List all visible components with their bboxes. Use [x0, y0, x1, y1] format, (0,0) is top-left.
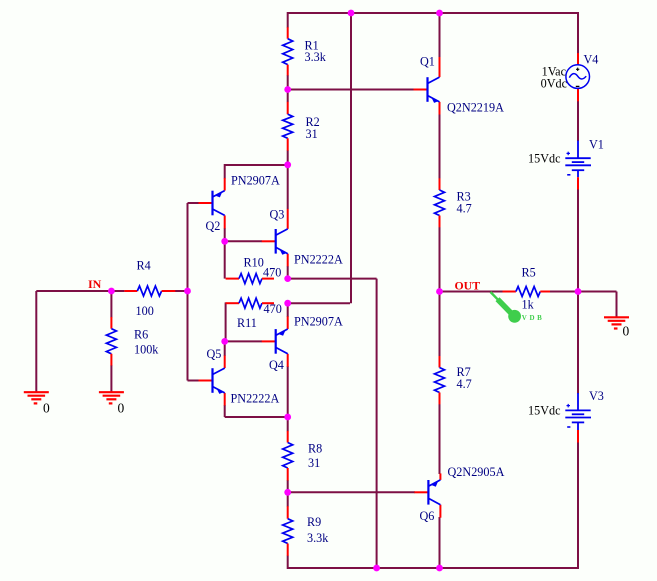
svg-text:15Vdc: 15Vdc [528, 152, 561, 166]
wire Q1 emitter to R3 [439, 114, 441, 179]
wire Q5 collector up to node [224, 341, 226, 356]
wire R9 bottom to bottom rail [287, 556, 289, 570]
transistor Q5 PN2222A [199, 380, 213, 382]
DC source V3 15Vdc [577, 393, 579, 410]
svg-text:100k: 100k [134, 343, 159, 357]
svg-text:R10: R10 [244, 256, 264, 270]
AC source V4 [577, 53, 579, 65]
resistor R5 [503, 291, 516, 293]
svg-text:R9: R9 [307, 515, 321, 529]
svg-text:31: 31 [308, 456, 320, 470]
wire ground stub right [578, 291, 617, 293]
svg-text:V1: V1 [589, 138, 604, 152]
probe marker VDB [491, 292, 500, 301]
wire R3 to OUT node [439, 227, 441, 292]
svg-text:15Vdc: 15Vdc [528, 404, 561, 418]
transistor Q3 PN2222A [262, 240, 276, 242]
transistor Q1 Q2N2219A [414, 89, 428, 91]
wire Q6 collector to bottom rail [439, 517, 441, 568]
wire R4 to input splitter column [175, 290, 188, 292]
svg-text:3.3k: 3.3k [307, 531, 329, 545]
transistor Q4 PN2907A [262, 340, 276, 342]
wire R1 top connection [287, 12, 289, 28]
svg-text:Q2N2219A: Q2N2219A [447, 101, 504, 115]
svg-text:V4: V4 [584, 53, 599, 67]
wire mid junction to V3 [577, 292, 579, 394]
wire right source column V4 to V1 [577, 12, 579, 54]
svg-text:100: 100 [136, 304, 154, 318]
svg-text:470: 470 [263, 266, 281, 280]
transistor Q6 Q2N2905A [414, 491, 428, 493]
wire bias drop from top rail to R11 node [350, 12, 352, 303]
wire node to Q1 base [288, 89, 414, 91]
svg-text:Q2: Q2 [206, 219, 221, 233]
svg-text:4.7: 4.7 [457, 377, 472, 391]
wire Q4 emitter up to R11 node [287, 303, 289, 317]
wire input node to left ground [36, 290, 111, 292]
svg-text:PN2907A: PN2907A [231, 174, 280, 188]
resistor R2 [287, 102, 289, 114]
svg-text:3.3k: 3.3k [305, 50, 327, 64]
resistor R6 [110, 317, 112, 329]
svg-text:4.7: 4.7 [457, 202, 472, 216]
wire V1 to mid junction [577, 189, 579, 292]
svg-text:Q2N2905A: Q2N2905A [448, 465, 505, 479]
wire Q2 emitter node horizontal [225, 164, 289, 166]
wire R2 bottom to Q2 emitter node [287, 150, 289, 165]
resistor R7 [439, 356, 441, 368]
wire R6 bottom to ground [110, 365, 112, 392]
svg-text:Q6: Q6 [420, 509, 435, 523]
wire R1 to R2 node and Q1 base feed [287, 75, 289, 102]
svg-text:0: 0 [623, 324, 630, 339]
svg-text:470: 470 [264, 302, 282, 316]
wire Q4 collector down to R8 node [287, 366, 289, 417]
wire to Q2 base [188, 202, 200, 204]
wire R8 bottom to R9 node [287, 480, 289, 507]
wire Q3 base node down to R10 [224, 241, 226, 278]
resistor R4 [112, 290, 124, 292]
svg-text:IN: IN [88, 277, 102, 291]
resistor R8 [287, 431, 289, 443]
transistor Q2 PN2907A [199, 202, 213, 204]
svg-text:VDB: VDB [522, 314, 545, 322]
wire R7 to Q6 emitter [439, 404, 441, 474]
ground left 0 [24, 391, 49, 393]
resistor R9 [287, 506, 289, 519]
ground right 0 [604, 316, 629, 318]
wire column x377 down to bottom rail [376, 279, 378, 568]
svg-text:R4: R4 [137, 259, 151, 273]
svg-text:R5: R5 [522, 266, 536, 280]
resistor R11 [226, 302, 239, 304]
svg-text:PN2222A: PN2222A [231, 392, 280, 406]
svg-text:R11: R11 [237, 316, 257, 330]
wire to Q5 base [188, 380, 200, 382]
svg-text:31: 31 [306, 127, 318, 141]
wire bottom negative rail [288, 567, 578, 569]
svg-text:0Vdc: 0Vdc [541, 77, 568, 91]
wire input splitter column [187, 203, 189, 381]
wire Q3 collector up to node [287, 165, 289, 209]
wire top positive rail [288, 12, 578, 14]
svg-text:1k: 1k [522, 298, 535, 312]
wire Q2 collector to Q3 base [224, 228, 226, 241]
wire Q4 base node horizontal [225, 340, 262, 342]
wire Q1 collector drop from top rail [439, 12, 441, 58]
svg-text:0: 0 [43, 401, 50, 416]
wire R8 top connection [287, 417, 289, 431]
svg-text:Q5: Q5 [207, 347, 222, 361]
svg-text:R6: R6 [134, 328, 148, 342]
wire node to Q6 base [288, 491, 415, 493]
ground middle 0 [99, 391, 124, 393]
wire R11 left drop to Q4 base node [225, 302, 227, 341]
svg-text:V3: V3 [589, 389, 604, 403]
wire Q3 emitter to R10 node [287, 266, 289, 280]
wire R6 top [110, 291, 112, 318]
resistor R10 [226, 278, 239, 280]
svg-text:0: 0 [118, 401, 125, 416]
svg-text:Q3: Q3 [270, 208, 285, 222]
wire R5 to source column [550, 291, 579, 293]
DC source V1 15Vdc [577, 141, 579, 159]
junction dots [348, 10, 355, 17]
wire V3 to bottom rail [577, 442, 579, 569]
wire OUT node to R7 [439, 292, 441, 357]
wire Q5 emitter to R8 node [224, 405, 226, 417]
svg-text:PN2907A: PN2907A [294, 315, 343, 329]
svg-text:R8: R8 [308, 442, 322, 456]
svg-text:PN2222A: PN2222A [294, 253, 343, 267]
svg-text:OUT: OUT [455, 279, 481, 293]
resistor R3 [439, 178, 441, 190]
wire OUT node to R5 [440, 291, 504, 293]
resistor R1 [287, 27, 289, 39]
wire R10 node to negative feedback column [288, 278, 377, 280]
svg-text:Q4: Q4 [269, 358, 284, 372]
svg-text:Q1: Q1 [420, 55, 435, 69]
